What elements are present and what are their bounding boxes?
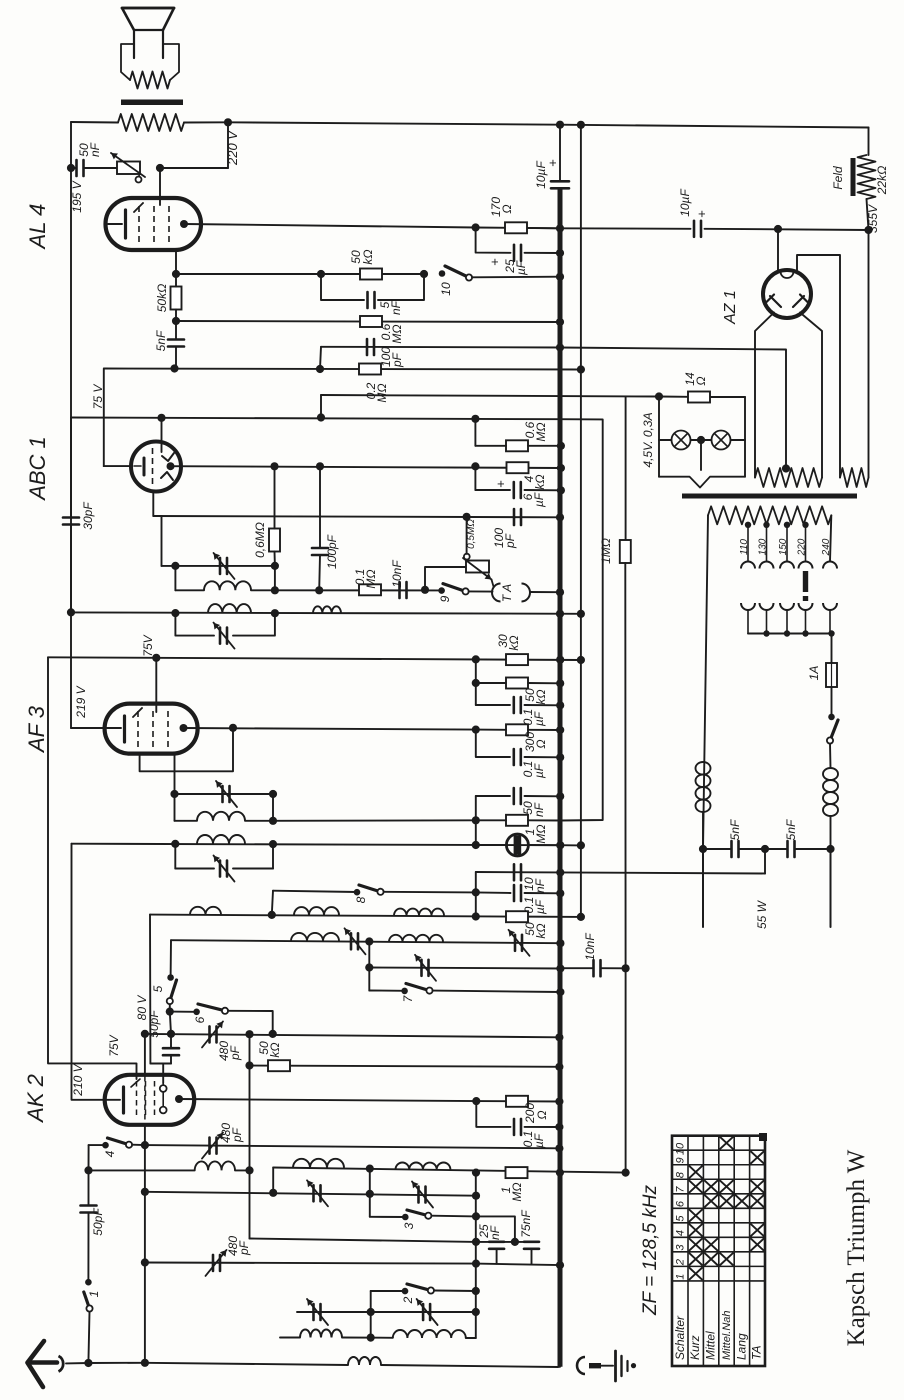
svg-text:Kapsch Triumph W: Kapsch Triumph W (843, 1149, 870, 1346)
resistor 50kOhm divider (506, 678, 528, 689)
wire row 892 oscillator coupling (273, 891, 357, 892)
wire grid row AL4 top (160, 167, 228, 169)
node bus row990 (556, 988, 564, 996)
wire 210V rail segment B (72, 844, 105, 1100)
wire 50pF link down (170, 1012, 171, 1034)
wire AL4 cathode row to bias network (185, 224, 560, 228)
svg-text:µF: µF (532, 492, 546, 507)
wire 0.1uF anode bypass ak2 (476, 1101, 510, 1127)
antenna jack arc (59, 1356, 64, 1372)
node anode decoupling branch (472, 726, 480, 734)
svg-text:4: 4 (675, 1230, 687, 1236)
lamp dial right (712, 431, 731, 450)
svg-text:8: 8 (675, 1171, 687, 1178)
node bus 300ohm (556, 726, 564, 734)
svg-text:9: 9 (675, 1157, 687, 1163)
ground plug bar (589, 1363, 601, 1368)
node fuse corner (828, 630, 834, 636)
svg-text:AZ 1: AZ 1 (722, 290, 739, 325)
svg-text:µF: µF (532, 763, 546, 778)
trimmer capacitor row967 (420, 960, 423, 976)
node bus row941 (556, 939, 564, 947)
node bus 0.1uF (556, 701, 564, 709)
svg-text:Mittel.Nah: Mittel.Nah (721, 1310, 733, 1360)
table switch matrix grid (672, 1136, 765, 1366)
node IFT4 right (269, 840, 277, 848)
svg-text:210 V: 210 V (71, 1063, 85, 1096)
wire row1034 left drop into tube (144, 1034, 146, 1076)
svg-text:Feld: Feld (831, 166, 845, 190)
svg-text:Lang: Lang (735, 1333, 749, 1360)
tube AK2 grid dashes (136, 1081, 138, 1118)
svg-text:75nF: 75nF (519, 1210, 533, 1238)
tube ABC1 anode dot (167, 462, 175, 470)
svg-text:5nF: 5nF (154, 330, 168, 351)
wire rail from transformer left to 195V rail (71, 121, 118, 124)
capacitor 5nF mains a (730, 841, 733, 857)
node bus row1034 (555, 1033, 563, 1041)
svg-text:kΩ: kΩ (534, 689, 548, 704)
wire 0.1uF anode bypass row (476, 730, 510, 757)
node row967 (365, 963, 373, 971)
node bus 0.1uF afe (556, 753, 564, 761)
coil osc row941 b (389, 935, 443, 942)
svg-text:kΩ: kΩ (361, 249, 375, 264)
svg-text:1: 1 (675, 1274, 687, 1280)
node row1242 (472, 1238, 480, 1246)
switch 4 (102, 1142, 109, 1149)
tube AZ1 filament circle (781, 272, 794, 279)
coil antenna ground (348, 1357, 381, 1365)
node row941 mid (365, 937, 373, 945)
node rail row229 (864, 226, 872, 234)
node junction 220V branch (224, 118, 232, 126)
wire ground bus corner (558, 1366, 560, 1368)
wire IFT2 left vertical (174, 566, 176, 590)
node bus row276 (556, 273, 564, 281)
field coil Feld with core (858, 155, 876, 199)
svg-text:+: + (493, 480, 508, 488)
svg-text:110: 110 (739, 539, 750, 555)
trimmer capacitor IFT4 (219, 861, 222, 877)
wire IFT2 trimmer row 566 (162, 565, 275, 567)
svg-text:kΩ: kΩ (534, 923, 548, 938)
wire row 844 detector diode line (72, 844, 561, 846)
node IFT3 out (269, 817, 277, 825)
wire top B+ rail to right corner (184, 122, 869, 127)
node HV center tap (782, 464, 790, 472)
wire primary right end down (830, 515, 831, 561)
wire row 516 100pF grid row (153, 516, 560, 517)
switch mains (828, 714, 835, 721)
node row1145 grid (141, 1141, 149, 1149)
wire RC loop 5nF parallel (321, 274, 364, 300)
svg-text:nF: nF (88, 142, 102, 157)
wire row 613 long AVC return (71, 612, 581, 613)
node bus row658 (556, 656, 564, 664)
tube AZ1 plates (770, 296, 781, 307)
tube AF3 anode dot (180, 724, 188, 732)
switch 5 (167, 974, 174, 981)
node row613 end on line2 (577, 610, 585, 618)
node detector branch row844 (472, 841, 480, 849)
svg-text:5: 5 (151, 985, 165, 992)
indicator jack symbol (506, 834, 528, 856)
capacitor 30pF antenna rail (63, 516, 79, 519)
svg-text:0,5MΩ: 0,5MΩ (466, 519, 477, 549)
node 50nF left on rail (67, 164, 75, 172)
resistor 0.6MOhm diode load (269, 529, 280, 552)
wire row 916 oscillator grid row (150, 915, 581, 917)
wire AZ1 cathode lead (777, 229, 779, 271)
node row1168 mid (366, 1165, 374, 1173)
svg-text:AF 3: AF 3 (24, 705, 49, 754)
wire AK2 anode row 1099 (179, 1099, 506, 1101)
wire sw2 branch down (370, 1291, 372, 1338)
svg-text:MΩ: MΩ (534, 824, 548, 843)
trimmer capacitor row941 b (514, 935, 517, 951)
choke mains right (823, 768, 838, 780)
coil osc row916 b (294, 907, 339, 915)
node row916 end line2 (577, 913, 585, 921)
trimmer capacitor 480pF a (208, 1026, 211, 1042)
svg-text:kΩ: kΩ (533, 474, 547, 489)
resistor 1MOhm AVC (506, 815, 528, 826)
output transformer core bar (121, 100, 183, 106)
node row1192 left (141, 1188, 149, 1196)
svg-text:Ω: Ω (694, 376, 708, 385)
switch 3 (402, 1214, 409, 1221)
tube AF3 cathode bar (123, 716, 126, 742)
wire row1216 jog to caps (476, 1216, 515, 1242)
node row1312 mid (367, 1308, 375, 1316)
wire 220V branch down (227, 122, 229, 168)
tube AL4 envelope (106, 198, 202, 250)
wire row 1312 padder row (297, 1311, 371, 1313)
svg-text:4,5V. 0,3A: 4,5V. 0,3A (641, 412, 655, 467)
node 75V row (317, 413, 325, 421)
node bus row1127 (555, 1123, 563, 1131)
node row369 link (316, 365, 324, 373)
node row892 branch (472, 888, 480, 896)
wire IFT3 sides (174, 794, 176, 821)
wire switch 10 to bus (472, 276, 560, 279)
trimmer capacitor row1192 b (417, 1187, 420, 1203)
tube AL4 heater tick (134, 203, 143, 212)
tube ABC1 envelope (131, 442, 181, 492)
node mains mid (761, 845, 769, 853)
svg-text:kΩ: kΩ (268, 1042, 282, 1057)
svg-text:10: 10 (675, 1142, 687, 1155)
svg-text:10nF: 10nF (390, 560, 404, 588)
trimmer capacitor 480pF c (212, 1255, 215, 1271)
wire AVC line3 vertical (625, 397, 627, 540)
resistor 14 Ohm lamp shunt (688, 392, 710, 403)
jack chassis arc (577, 1357, 585, 1374)
node 50k divider (472, 679, 480, 687)
rail 195V left vertical (AL4 plate rail) (70, 122, 72, 728)
tube AL4 cathode bar (124, 210, 127, 238)
primary taps (745, 522, 751, 528)
node AL4 grid row (170, 364, 178, 372)
resistor 50kOhm osc grid leak (506, 911, 528, 922)
resistor 1MOhm AVC line (620, 540, 631, 563)
wire IFT4 sides (174, 844, 176, 869)
wire AK2 grid main vertical (144, 1125, 146, 1363)
tube AK2 heater tick (131, 1079, 140, 1087)
node row590 IFT2 right (271, 586, 279, 594)
switch 9 (438, 587, 445, 594)
wire row 1240 from osc (250, 1239, 477, 1242)
wire to fuse (831, 634, 833, 664)
transformer core bar (682, 494, 857, 499)
svg-text:+: + (545, 159, 560, 167)
tube AF3 envelope (105, 704, 198, 754)
wire osc mid vertical (369, 1169, 371, 1217)
wire 0.6M bottom to row 590 (274, 566, 276, 590)
node cathode branch row466 (471, 462, 479, 470)
svg-text:240: 240 (821, 538, 832, 556)
resistor 50kOhm row 274 (360, 269, 382, 280)
resistor 300 Ohm anode filter (506, 724, 528, 735)
svg-text:195 V: 195 V (70, 180, 84, 212)
svg-text:130: 130 (758, 538, 769, 555)
wire row 821 AVC feed (273, 819, 476, 822)
node IFT2 left top (171, 562, 179, 570)
node bus top rail (556, 121, 564, 129)
node row1172 end line3 (622, 1169, 630, 1177)
node RC right (420, 270, 428, 278)
tube AF3 grid dashes (137, 711, 139, 747)
wire fuse to switch (831, 687, 833, 717)
tube AK2 anode dot (175, 1095, 183, 1103)
capacitor 50nF AL4 grid (75, 160, 78, 176)
svg-text:7: 7 (675, 1186, 687, 1193)
node line3 10nF (622, 964, 630, 972)
wire to pot top (425, 567, 466, 590)
svg-text:30pF: 30pF (81, 502, 95, 530)
wire main chassis bus vertical (559, 125, 561, 182)
node bus 0.6M (557, 442, 565, 450)
capacitor 100pF AL4 grid (366, 339, 369, 355)
node bus row1264 (556, 1261, 564, 1269)
winding HV secondary (755, 468, 822, 487)
node bus row1172 (556, 1169, 564, 1177)
node ground row grid (141, 1359, 149, 1367)
wire row 658 75V screen rail (48, 657, 581, 660)
wire row 967 branch (368, 942, 370, 991)
capacitor 10nF bus to line3 (592, 960, 595, 976)
wire cathode branch down (474, 466, 476, 490)
svg-text:nF: nF (532, 802, 546, 817)
switch 2 (402, 1288, 409, 1295)
node osc vertical row1170 (245, 1166, 253, 1174)
wire switch8 to cap (384, 891, 476, 894)
tube AK2 grid contact circles (162, 1083, 164, 1085)
node row916 right (472, 912, 480, 920)
node 1M top (472, 816, 480, 824)
trimmer capacitor row1192 a (312, 1185, 315, 1201)
node bus 6uF (557, 486, 565, 494)
trimmer capacitor row941 a (350, 933, 353, 949)
wire right rail to heater winding (868, 230, 870, 478)
svg-text:5nF: 5nF (784, 819, 798, 840)
wire row 229 B+ to AZ1 (560, 227, 691, 230)
wire row 1145 AK2 signal grid (89, 1144, 105, 1146)
svg-text:MΩ: MΩ (390, 324, 404, 343)
wire ABC1 anode row 466 (171, 466, 561, 468)
capacitor 10nF chassis (513, 864, 516, 880)
capacitor 100pF IF bypass vertical (312, 547, 328, 550)
wire screen divider branch (475, 659, 477, 705)
svg-text:100pF: 100pF (325, 534, 339, 569)
wire ABC1 internal anode feed (161, 418, 163, 452)
svg-text:1: 1 (87, 1291, 101, 1298)
svg-text:Ω: Ω (535, 1110, 549, 1119)
wire AF3 screen entry (155, 658, 157, 712)
ground symbol (614, 1351, 617, 1381)
svg-text:MΩ: MΩ (534, 422, 548, 441)
node pot branch (463, 513, 471, 521)
wire line3 lower (625, 968, 627, 1172)
wire 75V rail down to AK2 (48, 657, 137, 1079)
svg-text:MΩ: MΩ (375, 383, 389, 402)
wire row 872 chassis to mains filter (476, 872, 765, 874)
capacitor 50pF antenna (81, 1204, 97, 1207)
node RC left (317, 270, 325, 278)
voltage selector upper sockets (741, 562, 755, 569)
capacitor 0.1uF screen bypass (512, 697, 515, 713)
tube AK2 cathode bar (122, 1087, 125, 1113)
node row658 end line2 (577, 656, 585, 664)
svg-text:220: 220 (797, 538, 808, 556)
node 0.6M bottom (271, 562, 279, 570)
vertical link 321 row347 to row369 (320, 347, 321, 369)
wire choke right down (830, 816, 832, 849)
resistor 50kOhm AL4 screen feed (171, 287, 182, 310)
svg-text:50kΩ: 50kΩ (155, 284, 169, 312)
wire row 417 75V screen rail (71, 418, 560, 420)
potentiometer 0.5MOhm volume (466, 561, 489, 573)
wire row 1192 band row (145, 1192, 476, 1196)
node row1192 mid (366, 1190, 374, 1198)
node lamp left (655, 392, 663, 400)
svg-text:pF: pF (390, 352, 404, 368)
fuse 1A (826, 663, 837, 687)
wire row 1170 antenna coil row (89, 1169, 195, 1171)
svg-text:75V: 75V (107, 1034, 121, 1056)
svg-text:ABC 1: ABC 1 (25, 436, 50, 502)
trimmer capacitor row1312 a (312, 1304, 315, 1320)
wire row 1264 (476, 1264, 560, 1266)
svg-text:4: 4 (103, 1150, 117, 1157)
svg-text:75V: 75V (141, 634, 155, 656)
node bus row1145 (555, 1144, 563, 1152)
svg-text:µF: µF (533, 899, 547, 914)
winding lamp filament (659, 477, 745, 488)
tube AZ1 envelope (763, 270, 811, 318)
svg-text:220 V: 220 V (225, 130, 240, 166)
node bus row224 (556, 224, 564, 232)
node switch6 row (166, 1008, 174, 1016)
wire row 590 to detector (275, 589, 442, 591)
node bus row1066 (555, 1063, 563, 1071)
svg-text:55 W: 55 W (755, 899, 769, 929)
svg-text:pF: pF (228, 1045, 242, 1061)
svg-text:pF: pF (237, 1240, 251, 1256)
node 5nF junction (172, 317, 180, 325)
wire row 347 100pF (321, 346, 560, 349)
wire branch to 0.6M row (474, 419, 476, 446)
node mains left (699, 845, 707, 853)
node bus row872 (556, 868, 564, 876)
node mains right (826, 845, 834, 853)
lamp dial left (659, 439, 672, 441)
wire switch6 to drop (228, 1011, 273, 1034)
svg-text:6: 6 (675, 1200, 687, 1207)
wire right rail down to Feld (868, 128, 870, 156)
wire row 369 AL4 grid leak (104, 369, 581, 370)
node row1264 left (472, 1260, 480, 1268)
node row1312 right (472, 1308, 480, 1316)
capacitor 0.1uF osc (513, 885, 516, 901)
table corner mark (759, 1133, 767, 1141)
wire 50nF branch (476, 795, 510, 797)
svg-text:10µF: 10µF (678, 189, 692, 217)
node row1034 osc drop (245, 1030, 253, 1038)
node caps mid (511, 1238, 519, 1246)
node AF3 screen drop (152, 654, 160, 662)
switch 8 (354, 889, 361, 896)
svg-text:µF: µF (532, 711, 546, 726)
svg-text:Schalter: Schalter (673, 1315, 687, 1360)
coil osc row916 a (190, 907, 221, 915)
node row844 end line2 (577, 841, 585, 849)
wire AF3 anode row 728 (184, 728, 476, 730)
output transformer primary winding (118, 114, 184, 131)
tube ABC1 grid dash (152, 448, 154, 485)
svg-text:pF: pF (503, 533, 517, 549)
svg-text:5: 5 (675, 1215, 687, 1222)
wire 0.1uF divider row (476, 704, 510, 706)
svg-text:µF: µF (514, 260, 528, 275)
svg-text:3: 3 (402, 1222, 416, 1229)
node ABC1 anode top link (157, 414, 165, 422)
wire row 395 heater feed (321, 395, 659, 397)
resistor 1MOhm ak2 grid (506, 1167, 528, 1178)
capacitor 25nF (489, 1241, 504, 1244)
resistor 0.1MOhm detector (359, 584, 381, 595)
capacitor 25uF electrolytic (513, 245, 516, 261)
svg-text:Kurz: Kurz (688, 1335, 702, 1360)
svg-text:Ω: Ω (534, 739, 548, 748)
svg-text:2: 2 (401, 1296, 415, 1304)
wire row 274 screen to switch (176, 273, 424, 275)
coil IFT2 secondary (204, 581, 251, 590)
wire lamp center tap (700, 440, 702, 470)
node AZ1 cathode drop (774, 225, 782, 233)
wire to ground symbol (601, 1365, 613, 1367)
node bus anode row (557, 464, 565, 472)
svg-text:2: 2 (675, 1259, 687, 1266)
node 419 row branch (471, 415, 479, 423)
resistor 0.2MOhm grid leak (359, 364, 381, 375)
svg-text:kΩ: kΩ (507, 635, 521, 650)
wire osc right vertical 476 low (475, 1173, 477, 1338)
wire row 967 padder (369, 968, 560, 969)
coil osc row916 c (394, 909, 444, 916)
node 100pF top (316, 462, 324, 470)
